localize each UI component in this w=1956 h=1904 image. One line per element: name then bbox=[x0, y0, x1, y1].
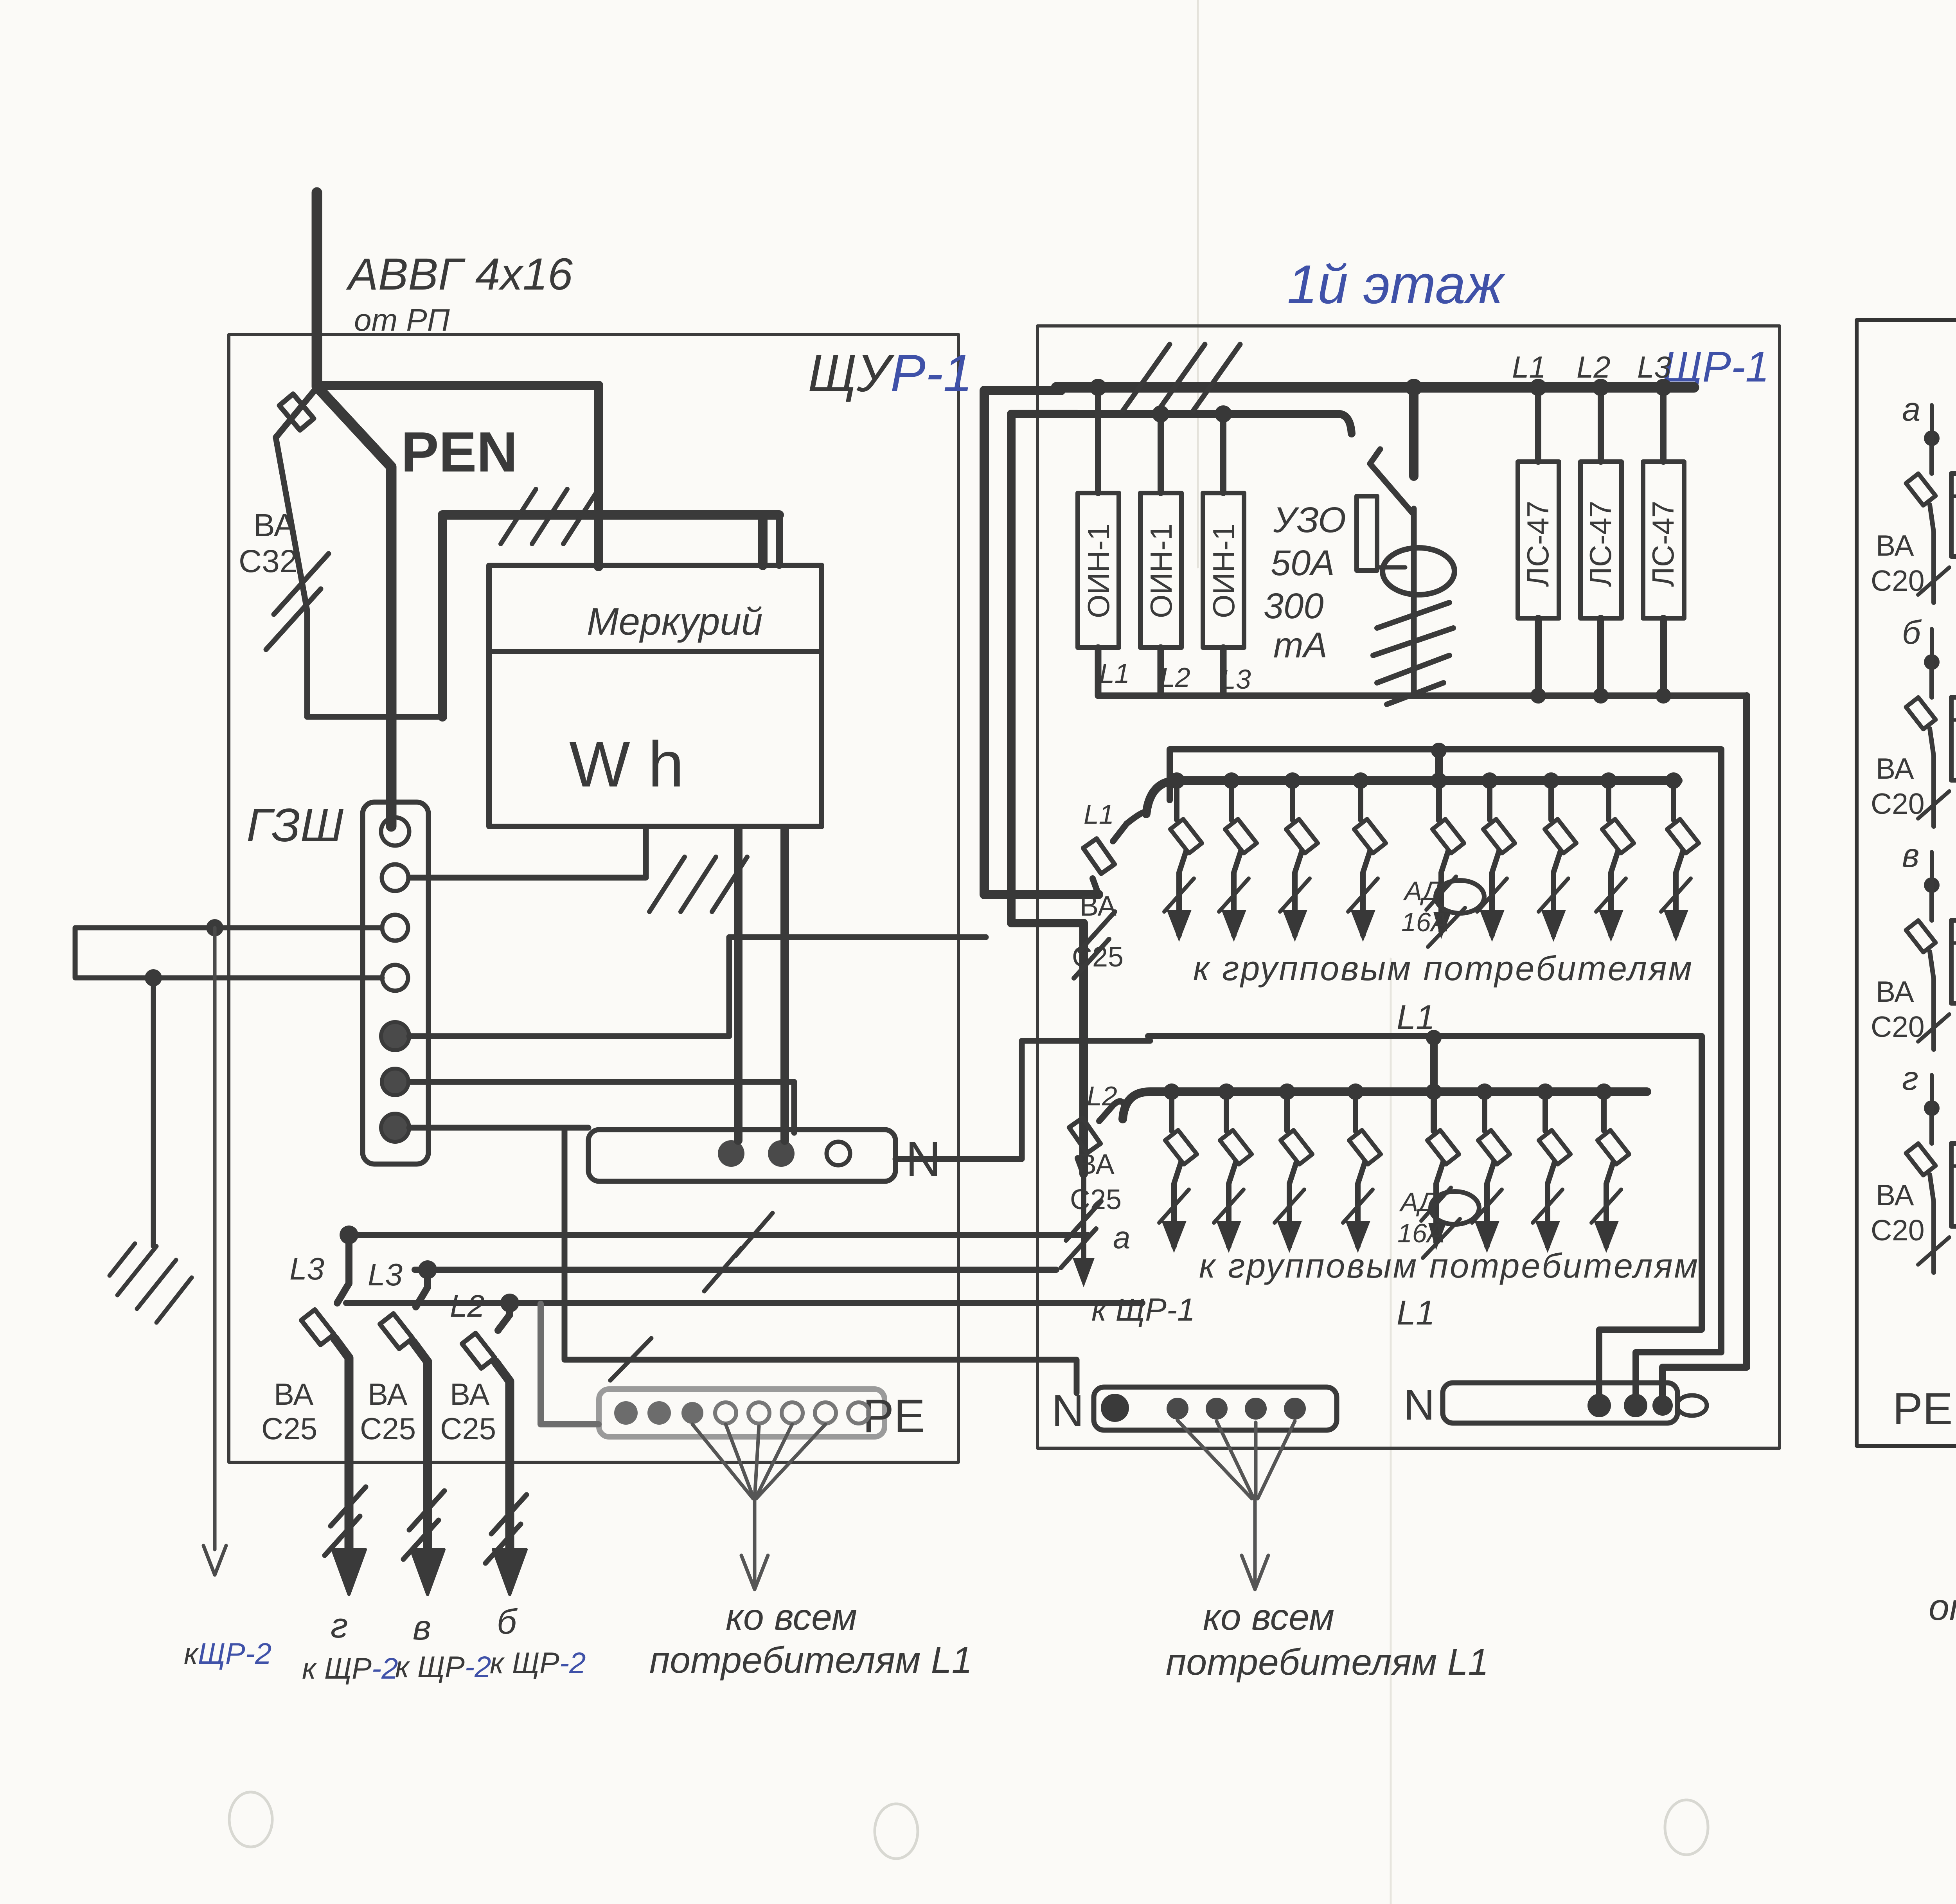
svg-text:ЛС-47: ЛС-47 bbox=[1583, 501, 1618, 587]
wires meter to N bus bbox=[734, 829, 742, 1141]
svg-text:к ЩР-2: к ЩР-2 bbox=[395, 1650, 491, 1684]
sub bus bbox=[1072, 414, 1352, 434]
svg-text:ЛС-47: ЛС-47 bbox=[1521, 501, 1555, 587]
svg-text:РЕ: РЕ bbox=[1893, 1384, 1952, 1434]
svg-text:ВА: ВА bbox=[274, 1377, 313, 1411]
svg-text:L3: L3 bbox=[289, 1251, 324, 1286]
svg-text:L1: L1 bbox=[1397, 1293, 1435, 1332]
wire into PE bus bbox=[541, 1304, 599, 1424]
L2 feed loop (to row 2) bbox=[1011, 414, 1084, 1174]
busbar PE (left panel, light) bbox=[599, 1389, 885, 1437]
svg-text:16А: 16А bbox=[1401, 907, 1449, 937]
breaker ВА С32 bbox=[276, 387, 318, 437]
svg-text:АД: АД bbox=[1399, 1187, 1437, 1217]
svg-text:ОИН-1: ОИН-1 bbox=[1144, 524, 1178, 618]
svg-text:г: г bbox=[1902, 1060, 1918, 1097]
svg-text:кЩР-2: кЩР-2 bbox=[184, 1637, 271, 1670]
circuit в: breaker ВА С20 + meter Wh bbox=[1906, 852, 1956, 1049]
panel 1й этаж (middle enclosure) bbox=[1037, 326, 1780, 1448]
svg-text:С20: С20 bbox=[1871, 1214, 1925, 1247]
phase wire L3 (to middle panel) bbox=[347, 1232, 1088, 1238]
svg-text:16А: 16А bbox=[1397, 1218, 1445, 1248]
svg-text:ВА: ВА bbox=[450, 1377, 489, 1411]
wire bus to meter box from breaker bbox=[321, 381, 599, 390]
wire to earth electrode bbox=[151, 978, 156, 1246]
svg-text:С25: С25 bbox=[261, 1411, 317, 1446]
svg-text:АВВГ 4х16: АВВГ 4х16 bbox=[346, 249, 573, 299]
svg-text:L1: L1 bbox=[1397, 998, 1435, 1037]
svg-text:L2: L2 bbox=[1577, 350, 1611, 384]
svg-text:ОИН-1: ОИН-1 bbox=[1206, 524, 1241, 618]
svg-text:б: б bbox=[1902, 614, 1922, 651]
phase wire L2 bbox=[346, 1300, 1142, 1306]
svg-text:к ЩР-2: к ЩР-2 bbox=[302, 1652, 398, 1685]
svg-text:С25: С25 bbox=[1072, 941, 1124, 973]
scan crease lines bbox=[1197, 0, 1199, 567]
svg-text:L2: L2 bbox=[1160, 662, 1190, 693]
svg-text:С20: С20 bbox=[1871, 564, 1925, 597]
svg-text:от РП: от РП bbox=[354, 302, 450, 337]
circuit г: breaker ВА С20 + meter Wh bbox=[1906, 1075, 1956, 1272]
panel ЩУР-1 (left enclosure) bbox=[229, 335, 958, 1462]
wire N to middle panel N busbar bbox=[565, 1130, 1077, 1393]
svg-text:1й этаж: 1й этаж bbox=[1287, 254, 1505, 315]
N fan-out to consumers bbox=[1178, 1420, 1295, 1499]
slash marks 3ph bbox=[501, 489, 599, 544]
svg-text:С25: С25 bbox=[360, 1411, 416, 1446]
slash marks on bus bbox=[1123, 344, 1240, 411]
svg-text:а: а bbox=[1113, 1220, 1131, 1255]
svg-text:ЩУР-1: ЩУР-1 bbox=[808, 344, 973, 403]
panel ЩР-2 (right enclosure) bbox=[1857, 320, 1956, 1446]
svg-text:PEN: PEN bbox=[401, 420, 518, 484]
row 1 drops: group circuit breakers bbox=[1164, 772, 1202, 942]
svg-text:к ЩР-1: к ЩР-1 bbox=[1091, 1292, 1195, 1328]
wire to meter (3-phase, top) bbox=[442, 515, 779, 717]
PE fan-out wires bbox=[692, 1424, 825, 1499]
svg-text:от ЩУ: от ЩУ bbox=[1929, 1587, 1956, 1628]
svg-text:потребителям L1: потребителям L1 bbox=[1166, 1641, 1489, 1683]
svg-text:L2: L2 bbox=[450, 1289, 485, 1323]
svg-text:С25: С25 bbox=[440, 1411, 496, 1446]
row 1 distribution bus bbox=[1146, 781, 1678, 814]
svg-text:ВА: ВА bbox=[1876, 529, 1914, 562]
supply cable АВВГ 4х16 bbox=[317, 193, 391, 826]
svg-text:ко всем: ко всем bbox=[1203, 1596, 1334, 1638]
N return right side (to N bus) bbox=[1663, 696, 1747, 1401]
svg-text:РЕ: РЕ bbox=[863, 1390, 925, 1442]
svg-text:а: а bbox=[1902, 391, 1920, 428]
svg-text:к ЩР-2: к ЩР-2 bbox=[490, 1647, 586, 1680]
svg-text:ОИН-1: ОИН-1 bbox=[1081, 524, 1116, 618]
circuit б: breaker ВА С20 + meter Wh bbox=[1906, 629, 1956, 826]
wire ГЗШ to meter bottom bbox=[409, 829, 646, 878]
N bus terminals bbox=[718, 1140, 744, 1167]
svg-text:б: б bbox=[497, 1602, 518, 1641]
svg-text:ко всем: ко всем bbox=[726, 1596, 857, 1638]
wire ГЗШ bottom to N busbar left bbox=[409, 1125, 588, 1131]
node dots on buses bbox=[1089, 379, 1107, 396]
svg-text:ВА: ВА bbox=[368, 1377, 407, 1411]
svg-text:L3: L3 bbox=[368, 1257, 403, 1292]
svg-text:ВА: ВА bbox=[1080, 891, 1116, 922]
svg-text:к групповым потребителям: к групповым потребителям bbox=[1193, 949, 1694, 988]
svg-text:ВА: ВА bbox=[1876, 752, 1914, 785]
svg-text:С32: С32 bbox=[239, 543, 297, 579]
svg-text:к групповым потребителям: к групповым потребителям bbox=[1199, 1246, 1699, 1285]
row 2 distribution bus bbox=[1123, 1092, 1647, 1119]
breaker ВА С25 (feeder б) bbox=[462, 1303, 527, 1594]
meter box Меркурий bbox=[489, 565, 822, 826]
surge arrester ОИН-1 (3) bbox=[1220, 414, 1226, 493]
svg-text:L1: L1 bbox=[1099, 658, 1130, 689]
svg-text:Меркурий: Меркурий bbox=[587, 600, 762, 643]
svg-text:г: г bbox=[331, 1606, 348, 1645]
arrester earth collector bbox=[1098, 648, 1747, 696]
ЛС-47 output collector bbox=[1538, 618, 1663, 696]
feeder arrow а / к ЩР-1 bbox=[1081, 1174, 1086, 1280]
svg-text:в: в bbox=[413, 1608, 431, 1647]
busbar N (middle left) bbox=[1094, 1387, 1337, 1430]
wire N bus to middle panel row2 loop bbox=[895, 1041, 1150, 1159]
diff breaker АД 16А (row 2) bbox=[1397, 1083, 1479, 1258]
earth hatch (arresters / УЗО) bbox=[1373, 603, 1453, 704]
wire ГЗШ right to middle panel (N link) bbox=[409, 937, 986, 1036]
svg-text:ЛС-47: ЛС-47 bbox=[1646, 501, 1680, 587]
svg-text:N: N bbox=[1404, 1381, 1435, 1429]
breaker ВА С25 (feeder г) bbox=[301, 1235, 366, 1594]
svg-text:ВА: ВА bbox=[253, 507, 295, 543]
ground electrode hatching bbox=[110, 1244, 192, 1323]
busbar N (middle right) bbox=[1443, 1383, 1677, 1423]
main 3-phase bus (middle panel) bbox=[1056, 382, 1694, 393]
svg-text:ВА: ВА bbox=[1876, 975, 1914, 1008]
busbar N (left panel) bbox=[588, 1130, 895, 1181]
surge arrester ОИН-1 (1) bbox=[1095, 387, 1101, 493]
svg-text:N: N bbox=[1052, 1386, 1084, 1436]
row 1 group bus loop bbox=[1170, 749, 1721, 1401]
svg-text:в: в bbox=[1902, 837, 1919, 874]
breaker ВА С25 (row 1 input L1) bbox=[1093, 878, 1098, 894]
svg-text:ГЗШ: ГЗШ bbox=[246, 799, 344, 851]
svg-text:С20: С20 bbox=[1871, 1010, 1925, 1043]
row 2 drops bbox=[1159, 1083, 1197, 1253]
svg-text:потребителям L1: потребителям L1 bbox=[649, 1639, 972, 1681]
svg-text:50А: 50А bbox=[1271, 543, 1335, 583]
slash marks on phase wires bbox=[704, 1213, 773, 1291]
L1 feed loop (to row 1) bbox=[984, 391, 1098, 894]
phase wire L3' bbox=[415, 1267, 1056, 1273]
circuit a: breaker ВА С20 + meter Wh bbox=[1906, 405, 1956, 603]
punch hole marks bbox=[229, 1792, 272, 1847]
node L3 bbox=[340, 1226, 358, 1244]
node junction on earth wire bbox=[206, 919, 223, 936]
svg-text:L2: L2 bbox=[1087, 1081, 1117, 1111]
breaker ВА С25 (row 2 input L2) bbox=[1078, 1158, 1084, 1174]
svg-text:ВА: ВА bbox=[1876, 1179, 1914, 1211]
svg-text:С20: С20 bbox=[1871, 787, 1925, 820]
svg-text:АД: АД bbox=[1403, 876, 1441, 906]
svg-text:L1: L1 bbox=[1512, 350, 1546, 384]
diff breaker АД 16А (row 1) bbox=[1401, 772, 1484, 947]
svg-text:УЗО: УЗО bbox=[1273, 500, 1346, 540]
wire ГЗШ to left (earth / feeder) bbox=[75, 928, 382, 978]
svg-text:W h: W h bbox=[569, 728, 684, 800]
busbar ГЗШ bbox=[363, 802, 428, 1164]
limiters ЛС-47 x3 bbox=[1535, 387, 1541, 462]
svg-text:L3: L3 bbox=[1637, 350, 1671, 384]
row 2 group bus loop bbox=[1148, 1036, 1702, 1399]
breaker ВА С25 (feeder в) bbox=[380, 1270, 444, 1594]
surge arrester ОИН-1 (2) bbox=[1158, 414, 1164, 493]
svg-text:mА: mА bbox=[1273, 625, 1327, 665]
svg-text:300: 300 bbox=[1264, 586, 1324, 626]
svg-text:L1: L1 bbox=[1084, 799, 1114, 830]
wire ГЗШ to N busbar bbox=[409, 1082, 794, 1133]
ГЗШ terminal circles bbox=[381, 817, 409, 846]
wire feeder к ЩР-2 (thin, leftmost) bbox=[213, 928, 217, 1549]
